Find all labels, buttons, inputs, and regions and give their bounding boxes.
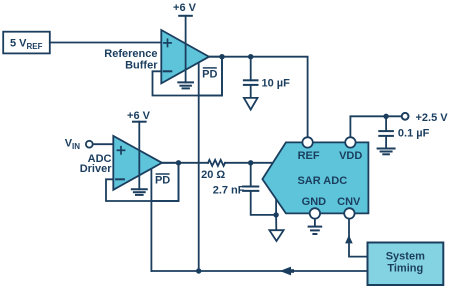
svg-text:SAR ADC: SAR ADC	[297, 175, 347, 187]
capacitor C1 10uF	[244, 57, 258, 98]
pin CNV	[344, 208, 354, 218]
system timing block	[368, 243, 444, 286]
ground (2.7nF, open triangle)	[269, 230, 283, 241]
node RC junction (2.7nF tap)	[248, 160, 253, 165]
svg-text:Reference: Reference	[104, 48, 157, 60]
label 5 VREF	[10, 37, 43, 51]
op-amp U2 ADC Driver	[113, 136, 162, 190]
node 10uF tap junction	[248, 54, 253, 59]
op-amp + input symbol (ADC driver)	[117, 147, 124, 154]
wire PD (ADC driver) down to system timing rail	[150, 201, 152, 271]
pin GND	[310, 208, 320, 218]
+6V supply wire (ADC driver)	[138, 122, 140, 190]
svg-text:REF: REF	[298, 150, 320, 162]
svg-text:Driver: Driver	[80, 163, 113, 175]
wire CNV pin to system timing	[349, 213, 368, 256]
svg-text:10 µF: 10 µF	[262, 77, 291, 89]
wire VIN to ADC driver + input	[93, 143, 114, 145]
wire 2.7nF node down to ground	[275, 215, 277, 230]
svg-text:GND: GND	[302, 196, 327, 208]
svg-text:0.1 µF: 0.1 µF	[398, 128, 430, 140]
node ADC driver output junction	[176, 160, 181, 165]
arrowhead into CNV	[345, 235, 353, 243]
pin VDD	[345, 137, 355, 147]
wire 5VREF output to reference buffer + input	[50, 42, 162, 44]
node rail junction (reference buffer PD)	[196, 268, 201, 273]
wire feedback loop (reference buffer - input to output)	[153, 57, 223, 96]
ground (10uF, open triangle)	[244, 98, 258, 110]
wire system timing rail to PD boxes	[151, 270, 367, 272]
terminal +2.5V	[402, 113, 409, 120]
ground (reference buffer supply)	[178, 82, 193, 88]
input terminal VIN	[86, 141, 93, 148]
pin REF	[302, 137, 312, 147]
svg-text:System: System	[386, 251, 425, 263]
+6V supply rail bar (ADC driver)	[133, 121, 146, 123]
wire 2.7nF node up to SAR ADC ground edge	[275, 199, 277, 215]
svg-text:+2.5 V: +2.5 V	[416, 112, 449, 124]
svg-text:+6 V: +6 V	[127, 110, 151, 122]
node output junction at PD box (reference buffer)	[219, 54, 224, 59]
+6V supply wire (reference buffer)	[185, 16, 187, 83]
op-amp + input symbol (reference buffer)	[164, 39, 171, 46]
wire resistor to SAR ADC input	[225, 162, 273, 164]
source 5VREF box	[3, 32, 50, 54]
op-amp U1 Reference Buffer	[161, 30, 209, 83]
svg-text:2.7 nF: 2.7 nF	[213, 184, 245, 196]
ground (ADC driver supply)	[132, 189, 147, 195]
wire output rail (reference buffer to REF pin corner)	[209, 57, 308, 138]
ground (SAR ADC GND pin)	[309, 227, 322, 234]
svg-text:PD: PD	[155, 174, 170, 186]
op-amp - input symbol (reference buffer)	[164, 70, 172, 72]
svg-text:Buffer: Buffer	[125, 59, 158, 71]
capacitor C2 2.7nF	[243, 163, 276, 215]
ground (0.1uF)	[378, 149, 395, 155]
PD box (reference buffer)	[199, 57, 222, 96]
svg-text:20 Ω: 20 Ω	[201, 169, 225, 181]
arrowhead on rail pointing left	[280, 267, 294, 276]
wire ADC driver output to resistor	[162, 162, 208, 164]
op-amp - input symbol (ADC driver)	[116, 178, 124, 180]
wire PD (reference buffer) down to system timing rail	[198, 96, 200, 272]
svg-text:CNV: CNV	[337, 196, 361, 208]
+6V supply rail bar (reference buffer)	[179, 15, 192, 17]
wire GND pin to ground	[314, 213, 316, 226]
svg-text:Timing: Timing	[387, 263, 423, 275]
wire feedback loop (ADC driver - input to output)	[106, 163, 179, 201]
wire VDD pin up to +2.5V rail	[350, 116, 401, 137]
PD box (ADC driver)	[151, 163, 178, 201]
resistor R1 20 ohm	[208, 160, 225, 166]
SAR ADC U3	[262, 142, 368, 213]
svg-text:VDD: VDD	[339, 150, 362, 162]
node 2.7nF ground junction	[273, 212, 278, 217]
svg-text:+6 V: +6 V	[173, 2, 197, 14]
capacitor C3 0.1uF	[379, 116, 393, 148]
svg-text:PD: PD	[202, 68, 217, 80]
node 0.1uF tap junction	[383, 114, 388, 119]
